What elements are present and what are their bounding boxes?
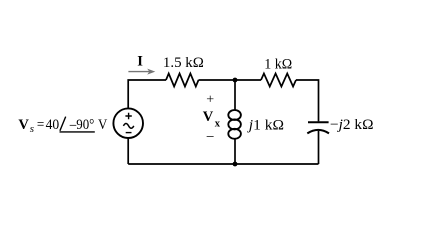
- capacitor C1: [307, 122, 329, 133]
- node A (top junction dot): [233, 78, 238, 83]
- wire from bottom rail to source bottom: [127, 138, 129, 164]
- resistor R1 1.5 kOhm: [166, 74, 199, 87]
- svg-text:–90°: –90°: [69, 117, 94, 133]
- svg-text:V: V: [203, 109, 214, 125]
- svg-text:−j2 kΩ: −j2 kΩ: [330, 117, 374, 133]
- svg-text:1 kΩ: 1 kΩ: [264, 56, 292, 72]
- inductor L1: [228, 80, 241, 164]
- wire from C1 bottom to bottom rail: [318, 131, 320, 164]
- svg-text:40: 40: [46, 117, 60, 133]
- svg-text:j1 kΩ: j1 kΩ: [247, 118, 284, 134]
- wire from R1 to resistor R2 through node A: [199, 79, 262, 81]
- svg-text:x: x: [215, 119, 221, 130]
- svg-text:s: s: [30, 123, 34, 135]
- source label Vs = 40 angle -90 deg V: [18, 117, 107, 135]
- svg-text:V: V: [18, 117, 29, 133]
- svg-text:1.5 kΩ: 1.5 kΩ: [163, 55, 204, 71]
- svg-text:−: −: [206, 129, 214, 145]
- bottom wire: [128, 163, 318, 165]
- resistor R2 1 kOhm: [261, 74, 296, 87]
- svg-text:I: I: [137, 53, 143, 69]
- current arrow I: [128, 69, 155, 75]
- voltage source Vs: [113, 108, 143, 138]
- wire from source top to resistor R1: [128, 80, 166, 108]
- svg-text:=: =: [37, 117, 44, 133]
- svg-text:+: +: [206, 93, 214, 108]
- wire from R2 to capacitor C1 (top right corner): [296, 80, 319, 121]
- node B (bottom junction dot): [233, 162, 238, 167]
- svg-text:V: V: [98, 117, 107, 133]
